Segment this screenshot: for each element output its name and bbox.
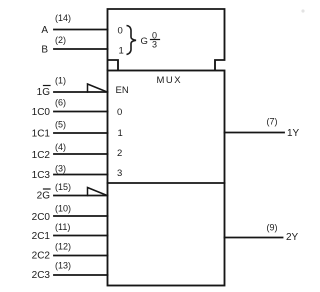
svg-text:1C3: 1C3 bbox=[32, 170, 51, 181]
wire 1Y output bbox=[225, 132, 285, 134]
svg-text:2C2: 2C2 bbox=[32, 251, 51, 262]
wire 2G input bbox=[54, 195, 108, 197]
svg-text:(3): (3) bbox=[55, 164, 66, 174]
svg-text:0: 0 bbox=[118, 26, 123, 37]
wire 1C3 input bbox=[54, 174, 108, 176]
svg-text:(6): (6) bbox=[55, 98, 66, 108]
wire 1C1 input bbox=[54, 132, 108, 134]
svg-text:1C0: 1C0 bbox=[32, 107, 51, 118]
svg-text:2C0: 2C0 bbox=[32, 212, 51, 223]
svg-text:(7): (7) bbox=[267, 117, 278, 127]
overbar 1G bbox=[44, 85, 51, 87]
svg-text:0: 0 bbox=[117, 107, 122, 118]
svg-text:3: 3 bbox=[117, 168, 122, 179]
svg-text:1C1: 1C1 bbox=[32, 129, 51, 140]
svg-text:(5): (5) bbox=[55, 120, 66, 130]
svg-text:2: 2 bbox=[117, 148, 122, 159]
svg-text:(9): (9) bbox=[267, 223, 278, 233]
section divider line bbox=[108, 182, 225, 184]
svg-text:(12): (12) bbox=[55, 242, 71, 252]
svg-text:MUX: MUX bbox=[157, 75, 183, 86]
wire 2C0 input bbox=[54, 215, 108, 217]
polarity wedge 1G bbox=[88, 84, 107, 92]
overbar 2G bbox=[44, 188, 51, 190]
svg-text:(2): (2) bbox=[55, 35, 66, 45]
svg-text:(11): (11) bbox=[55, 222, 70, 232]
svg-text:1: 1 bbox=[119, 46, 124, 57]
svg-text:3: 3 bbox=[152, 40, 157, 50]
wire 1G input bbox=[54, 91, 108, 93]
wire 2C2 input bbox=[54, 255, 108, 257]
wire A input bbox=[54, 29, 108, 31]
svg-text:(14): (14) bbox=[55, 13, 71, 23]
svg-text:(15): (15) bbox=[55, 182, 71, 192]
svg-text:1G: 1G bbox=[37, 87, 51, 98]
svg-text:(4): (4) bbox=[55, 142, 66, 152]
scan smudge bbox=[301, 9, 304, 12]
svg-text:G: G bbox=[141, 36, 148, 47]
svg-text:2C1: 2C1 bbox=[32, 231, 51, 242]
wire 1C0 input bbox=[54, 111, 108, 113]
svg-text:(13): (13) bbox=[55, 261, 71, 271]
svg-text:2G: 2G bbox=[37, 191, 51, 202]
svg-text:1: 1 bbox=[118, 128, 123, 139]
wire 2Y output bbox=[225, 237, 283, 239]
svg-text:(10): (10) bbox=[55, 204, 71, 214]
mux block U1 outline bbox=[108, 71, 225, 286]
svg-text:2Y: 2Y bbox=[286, 232, 299, 243]
svg-text:B: B bbox=[41, 45, 48, 56]
polarity wedge 2G bbox=[88, 188, 107, 196]
svg-text:1Y: 1Y bbox=[287, 128, 300, 139]
wire B input bbox=[54, 48, 108, 50]
svg-text:1C2: 1C2 bbox=[32, 150, 51, 161]
svg-text:2C3: 2C3 bbox=[32, 270, 51, 281]
wire 2C3 input bbox=[54, 274, 108, 276]
svg-text:(1): (1) bbox=[55, 76, 66, 86]
wire 1C2 input bbox=[54, 153, 108, 155]
fraction bar G 0/3 bbox=[151, 39, 160, 41]
wire 2C1 input bbox=[54, 235, 108, 237]
svg-text:A: A bbox=[41, 25, 48, 36]
common select block G0/3 outline bbox=[108, 9, 225, 70]
svg-text:EN: EN bbox=[116, 85, 129, 96]
brace in select block bbox=[127, 26, 137, 55]
